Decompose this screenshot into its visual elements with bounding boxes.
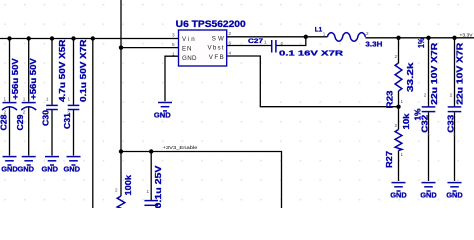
wire +3V3_Enable horizontal [121, 152, 282, 209]
ground C30 [42, 157, 60, 174]
svg-text:2: 2 [424, 93, 427, 98]
ground C31 [64, 157, 81, 174]
wire 0.1u cap drop [150, 152, 152, 201]
capacitor C27 [248, 38, 344, 57]
svg-text:3: 3 [172, 33, 175, 38]
junction C28 at Vin rail [7, 36, 11, 40]
capacitor C31 [63, 39, 88, 129]
junction C32 at +3.3V rail [426, 36, 430, 40]
svg-text:1: 1 [453, 132, 456, 137]
svg-text:1: 1 [427, 132, 430, 137]
svg-text:1: 1 [4, 97, 7, 102]
svg-text:R23: R23 [386, 90, 395, 109]
svg-text:L1: L1 [315, 27, 323, 34]
svg-text:GND: GND [1, 165, 18, 174]
IC U6 TPS562200 [172, 18, 246, 66]
wire C31 bottom [73, 110, 75, 156]
wire IC GND [165, 56, 179, 101]
junction VFB feedback at R23/R27 divider [396, 105, 400, 109]
svg-text:GND: GND [446, 191, 463, 200]
svg-text:+3V3_Enable: +3V3_Enable [163, 145, 198, 151]
svg-text:100k: 100k [124, 175, 133, 196]
svg-text:VFB: VFB [209, 54, 224, 61]
svg-text:C32: C32 [421, 114, 430, 133]
svg-text:10k: 10k [402, 113, 411, 130]
svg-text:1: 1 [323, 32, 326, 37]
ground C33 [446, 183, 463, 200]
svg-text:5: 5 [172, 42, 175, 47]
svg-text:1: 1 [23, 97, 26, 102]
svg-text:2: 2 [366, 31, 369, 36]
svg-text:2: 2 [23, 110, 26, 115]
wire C32 top [428, 38, 430, 107]
wire EN [121, 47, 179, 49]
svg-text:+56u 50V: +56u 50V [11, 58, 20, 100]
junction C29 at Vin rail [27, 36, 31, 40]
svg-text:1: 1 [401, 99, 404, 104]
junction C30 at Vin rail [50, 36, 54, 40]
capacitor C32 [421, 43, 439, 137]
wire Vin rail [0, 38, 179, 40]
svg-text:6: 6 [229, 41, 232, 46]
wire C30 bottom [51, 110, 53, 156]
svg-text:4: 4 [229, 51, 232, 56]
resistor R 100k [115, 175, 133, 209]
wire SW to L1 [227, 36, 328, 38]
wire Vbst left [227, 45, 271, 47]
svg-text:SW: SW [212, 35, 224, 42]
svg-text:EN: EN [182, 45, 192, 52]
junction R23 at +3.3V rail [396, 36, 400, 40]
wire C28 top drop [9, 39, 11, 102]
svg-text:1: 1 [147, 189, 150, 194]
svg-text:2: 2 [67, 111, 70, 116]
svg-text:2: 2 [229, 31, 232, 36]
wire C31 top drop [73, 39, 75, 105]
svg-text:2: 2 [395, 54, 398, 59]
svg-text:3.3H: 3.3H [365, 42, 382, 49]
ground R27 [390, 183, 407, 200]
ground U6 [154, 103, 172, 120]
junction C33 at +3.3V rail [452, 36, 456, 40]
svg-text:U6 TPS562200: U6 TPS562200 [176, 18, 246, 29]
svg-text:GND: GND [390, 191, 407, 200]
capacitor C28 [0, 58, 20, 131]
inductor L1 [315, 27, 383, 49]
svg-text:GND: GND [154, 111, 171, 120]
svg-text:4.7u 50V X5R: 4.7u 50V X5R [58, 39, 67, 102]
svg-text:C28: C28 [0, 114, 8, 130]
svg-text:+3.3V: +3.3V [460, 32, 474, 38]
wire C32 bottom [428, 112, 430, 181]
svg-text:GND: GND [42, 165, 59, 174]
svg-text:R27: R27 [385, 151, 394, 168]
junction Vin rail branch down [91, 36, 95, 40]
ground C32 [420, 183, 437, 200]
ground C29 [18, 157, 36, 174]
svg-text:GND: GND [182, 55, 197, 62]
svg-text:GND: GND [18, 165, 35, 174]
svg-text:C33: C33 [446, 114, 455, 133]
svg-text:GND: GND [64, 165, 81, 174]
svg-text:0.1u 25V: 0.1u 25V [154, 165, 163, 208]
junction +3V3_Enable / 100k [119, 149, 123, 153]
svg-text:GND: GND [420, 191, 437, 200]
svg-text:C29: C29 [16, 114, 25, 130]
wire R27 bottom [398, 151, 400, 182]
wire VFB feedback [227, 56, 399, 107]
wire C29 bottom [28, 107, 30, 155]
wire Vbst right riser [276, 37, 305, 46]
svg-text:2: 2 [4, 110, 7, 115]
junction +3V3_Enable / 0.1u cap [149, 149, 153, 153]
svg-text:2: 2 [450, 93, 453, 98]
svg-text:2: 2 [46, 111, 49, 116]
junction EN tap [119, 45, 123, 49]
svg-text:1%: 1% [417, 37, 426, 48]
ground C28 [1, 157, 18, 174]
junction C31 at Vin rail [71, 36, 75, 40]
svg-text:1: 1 [264, 40, 267, 45]
wire R23 top [398, 38, 400, 63]
svg-text:0.1 16V X7R: 0.1 16V X7R [279, 48, 344, 57]
svg-text:+56u 50V: +56u 50V [29, 58, 38, 100]
svg-text:1: 1 [68, 97, 71, 102]
resistor R27 [385, 108, 422, 168]
svg-text:0.1u 50V X7R: 0.1u 50V X7R [79, 39, 88, 102]
svg-text:Vin: Vin [182, 36, 195, 43]
svg-text:1: 1 [46, 97, 49, 102]
svg-text:C27: C27 [248, 38, 263, 45]
svg-text:Vbst: Vbst [208, 45, 224, 52]
wire C29 top drop [28, 39, 30, 102]
wire +3.3V rail [365, 37, 474, 39]
svg-text:2: 2 [115, 188, 118, 193]
svg-text:2: 2 [395, 123, 398, 128]
wire long vertical to bottom edge [92, 39, 94, 209]
svg-text:33.2k: 33.2k [406, 62, 415, 92]
wire C33 top [454, 38, 456, 107]
capacitor C 0.1u 25V [144, 165, 163, 209]
capacitor C33 [446, 43, 464, 137]
wire C30 top drop [51, 39, 53, 105]
capacitor C30 [41, 39, 67, 126]
resistor R23 [386, 37, 426, 108]
junction Vbst/C27 to SW node [304, 35, 308, 39]
svg-text:22u 10V X7R: 22u 10V X7R [455, 43, 464, 105]
wire C33 bottom [454, 112, 456, 181]
wire +3V3_Enable vertical [120, 0, 122, 196]
wire R23 bottom / R27 top [398, 91, 400, 130]
svg-text:1: 1 [401, 152, 404, 157]
svg-text:1: 1 [172, 52, 175, 57]
wire C28 bottom [9, 107, 11, 155]
capacitor C29 [16, 58, 38, 131]
svg-text:2: 2 [281, 41, 284, 46]
svg-text:22u 10V X7R: 22u 10V X7R [430, 43, 439, 105]
